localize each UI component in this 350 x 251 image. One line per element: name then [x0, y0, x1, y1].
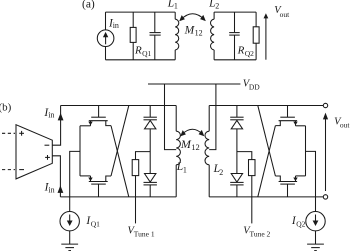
label IQ2	[291, 215, 306, 228]
wire right tank top rail (node C)	[209, 105, 323, 107]
label M12 (a)	[184, 25, 203, 38]
current source IQ1	[60, 212, 79, 231]
svg-text:Q1: Q1	[91, 219, 100, 228]
wire left tank top rail (node A)	[61, 105, 177, 107]
svg-text:Tune 2: Tune 2	[250, 230, 271, 239]
svg-text:in: in	[48, 185, 54, 194]
output terminal bottom	[323, 195, 327, 199]
svg-text:R: R	[237, 45, 245, 57]
varactor D2 lower left	[144, 174, 157, 197]
label L2 (b)	[213, 163, 224, 177]
svg-text:1: 1	[174, 1, 178, 10]
current source Iin (a)	[97, 12, 114, 60]
wire VDD drop to L2 center tap	[209, 84, 216, 150]
wire IQ2 to ground	[315, 231, 317, 244]
inductor L2 (a)	[211, 12, 215, 60]
capacitor tank2	[229, 12, 240, 60]
resistor RQ1	[130, 12, 136, 60]
wire left tank bottom rail (node B)	[60, 196, 176, 198]
wire varactor mid node right	[236, 129, 238, 174]
svg-text:Tune 1: Tune 1	[134, 230, 155, 239]
varactor D1 upper left	[144, 106, 157, 129]
ground IQ2	[307, 244, 324, 251]
label RQ2	[237, 45, 255, 58]
svg-text:(b): (b)	[0, 101, 12, 113]
Gm input - mark	[19, 169, 24, 171]
label L1 (b)	[176, 161, 187, 174]
svg-text:out: out	[280, 10, 291, 19]
Gm input + mark	[19, 131, 24, 136]
svg-text:out: out	[340, 120, 350, 129]
transistor M1 top of left pair	[80, 106, 111, 126]
wire cross-couple M1 drain to node B	[111, 126, 129, 197]
wire VDD drop to L1 center tap	[165, 84, 177, 150]
VDD rail	[148, 83, 240, 85]
label L2 (a)	[208, 0, 219, 10]
wire right pair common source	[305, 126, 307, 176]
varactor D4 lower right	[230, 174, 243, 197]
arrow Vout (a)	[264, 13, 269, 60]
svg-text:in: in	[113, 21, 119, 30]
label Iin bottom	[44, 182, 55, 195]
wire Gm bottom output to left tank bottom rail, current Iin up	[52, 156, 63, 197]
wire cross-couple M3 drain to node D	[258, 126, 276, 197]
label Iin top	[43, 107, 54, 120]
svg-text:R: R	[134, 45, 142, 57]
transistor M3 top of right pair	[275, 106, 305, 126]
label VTune1	[128, 226, 155, 239]
svg-text:12: 12	[195, 29, 203, 38]
inductor L1 (a)	[175, 12, 179, 60]
ground IQ1	[61, 244, 78, 251]
wire source tap to IQ1	[70, 151, 80, 211]
wire source tap to IQ2	[306, 151, 316, 211]
svg-text:2: 2	[215, 1, 219, 10]
dashed input wire bottom	[2, 169, 15, 171]
svg-text:Q2: Q2	[245, 49, 254, 58]
wire cross-couple M4 drain to node C	[258, 106, 276, 177]
wire to VTune1	[135, 176, 137, 224]
label VDD	[243, 79, 261, 92]
inductor L1 (b)	[176, 106, 180, 197]
svg-text:in: in	[48, 111, 54, 120]
wire left pair common source	[79, 126, 81, 176]
label Iin (a)	[108, 17, 119, 30]
label IQ1	[85, 215, 100, 228]
op-amp Gm cell	[16, 125, 52, 179]
output terminal top	[323, 103, 327, 107]
wire to VTune2	[251, 176, 253, 224]
svg-text:2: 2	[219, 168, 223, 177]
arrow Vout (b)	[323, 113, 328, 191]
svg-text:M: M	[180, 137, 192, 151]
label Vout (b)	[334, 116, 350, 129]
svg-text:(a): (a)	[82, 0, 95, 11]
label RQ1	[134, 45, 152, 58]
label Vout (a)	[274, 5, 290, 19]
wire varactor mid node left	[149, 129, 151, 174]
label M12 (b)	[180, 137, 200, 152]
varactor D3 upper right	[230, 106, 243, 129]
current source IQ2	[306, 212, 325, 231]
label VTune2	[243, 226, 270, 239]
dashed input wire top	[2, 132, 15, 134]
wire tank1 bottom rail	[106, 59, 176, 61]
wire Gm top output to left tank top rail, current Iin up	[52, 106, 63, 146]
resistor tune left	[132, 152, 150, 176]
wire cross-couple M2 drain to node A	[111, 106, 129, 177]
transistor M4 bottom of right pair	[275, 176, 305, 197]
svg-text:DD: DD	[249, 82, 260, 91]
resistor tune right	[237, 152, 255, 176]
svg-text:1: 1	[183, 165, 187, 174]
Gm output - mark	[45, 144, 50, 146]
wire tank2 top rail	[214, 11, 256, 13]
wire tank2 bottom rail	[214, 59, 256, 61]
svg-text:Q2: Q2	[296, 219, 305, 228]
mutual coupling arrow M12 (b)	[180, 129, 204, 136]
capacitor tank1	[150, 12, 161, 60]
wire IQ1 to ground	[69, 231, 71, 244]
inductor L2 (b)	[205, 106, 209, 197]
wire right tank bottom rail (node D)	[209, 196, 323, 198]
resistor RQ2	[253, 12, 259, 60]
Gm output + mark	[45, 155, 50, 160]
label L1 (a)	[167, 0, 178, 10]
transistor M2 bottom of left pair	[80, 176, 111, 197]
svg-text:12: 12	[191, 142, 200, 152]
mutual coupling arrow M12 (a)	[179, 14, 206, 22]
wire tank1 top rail	[106, 11, 176, 13]
svg-text:Q1: Q1	[142, 49, 151, 58]
